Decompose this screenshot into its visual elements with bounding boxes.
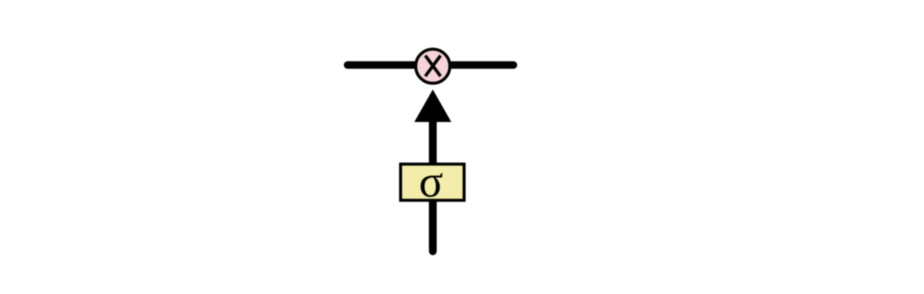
svg-text:σ: σ (419, 156, 443, 206)
wire: vertical arrow shaft from sigma gate (429, 118, 437, 251)
pointwise multiply node (circle) (416, 49, 450, 83)
arrowhead into multiply node (414, 90, 451, 123)
sigma gate box (401, 164, 465, 200)
wire: horizontal cell-state line (348, 61, 514, 68)
multiply symbol x (425, 56, 440, 77)
